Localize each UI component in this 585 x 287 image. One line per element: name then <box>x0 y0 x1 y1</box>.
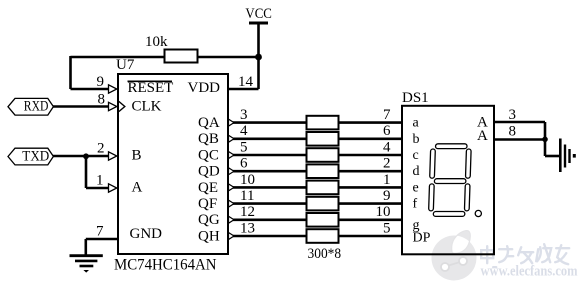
svg-text:5: 5 <box>383 220 391 236</box>
svg-text:11: 11 <box>240 188 254 204</box>
svg-text:U7: U7 <box>116 57 135 73</box>
svg-text:d: d <box>413 164 420 179</box>
svg-text:QD: QD <box>198 164 220 180</box>
svg-text:2: 2 <box>97 141 105 157</box>
svg-text:8: 8 <box>509 123 517 139</box>
svg-text:VDD: VDD <box>188 80 221 96</box>
svg-text:1: 1 <box>96 173 104 189</box>
svg-text:c: c <box>413 148 419 163</box>
svg-text:b: b <box>413 132 420 147</box>
svg-text:3: 3 <box>509 107 517 123</box>
svg-text:10: 10 <box>376 204 391 220</box>
svg-text:RESET: RESET <box>128 80 174 96</box>
svg-text:e: e <box>413 180 419 195</box>
svg-text:QA: QA <box>198 115 220 131</box>
svg-text:QF: QF <box>198 196 217 212</box>
svg-text:GND: GND <box>130 226 163 242</box>
svg-text:10: 10 <box>240 172 255 188</box>
svg-text:QE: QE <box>198 180 218 196</box>
svg-text:1: 1 <box>383 172 391 188</box>
svg-text:QB: QB <box>198 131 219 147</box>
svg-text:DP: DP <box>413 231 431 246</box>
svg-text:9: 9 <box>383 188 391 204</box>
svg-text:8: 8 <box>98 92 106 108</box>
svg-text:4: 4 <box>240 123 248 139</box>
svg-text:TXD: TXD <box>22 148 49 164</box>
svg-text:13: 13 <box>240 220 255 236</box>
svg-text:B: B <box>132 148 142 164</box>
svg-text:9: 9 <box>97 74 105 90</box>
svg-text:www.elecfans.com: www.elecfans.com <box>481 264 578 280</box>
svg-text:A: A <box>132 180 143 196</box>
svg-text:RXD: RXD <box>24 99 49 115</box>
svg-text:MC74HC164AN: MC74HC164AN <box>114 257 217 274</box>
svg-text:7: 7 <box>383 107 391 123</box>
svg-text:6: 6 <box>383 123 391 139</box>
svg-text:CLK: CLK <box>132 99 162 115</box>
svg-text:3: 3 <box>240 107 248 123</box>
svg-text:5: 5 <box>240 139 248 155</box>
svg-text:DS1: DS1 <box>402 90 429 106</box>
svg-text:A: A <box>477 128 488 144</box>
svg-text:300*8: 300*8 <box>308 246 342 262</box>
svg-text:6: 6 <box>240 156 248 172</box>
svg-text:VCC: VCC <box>245 6 272 22</box>
svg-text:12: 12 <box>240 204 255 220</box>
svg-text:10k: 10k <box>145 34 168 50</box>
svg-text:a: a <box>413 116 420 131</box>
svg-text:QG: QG <box>198 212 220 228</box>
svg-text:7: 7 <box>96 224 104 240</box>
svg-text:QH: QH <box>198 228 220 244</box>
svg-text:14: 14 <box>238 74 254 90</box>
svg-text:QC: QC <box>198 147 219 163</box>
svg-text:4: 4 <box>383 139 391 155</box>
svg-text:2: 2 <box>383 156 391 172</box>
svg-text:f: f <box>413 197 418 212</box>
